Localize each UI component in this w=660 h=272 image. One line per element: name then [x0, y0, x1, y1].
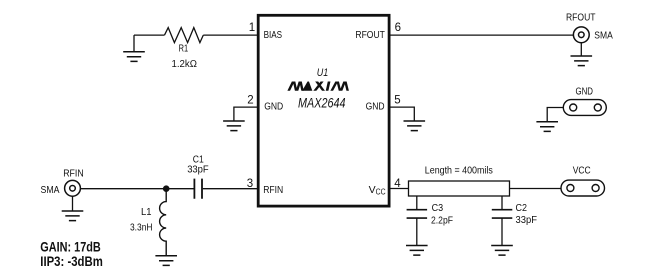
capacitor C3: [407, 210, 428, 218]
ground (RFIN SMA): [62, 211, 84, 221]
ground (C3): [406, 246, 428, 256]
wire (pin 4 to microstrip): [390, 188, 409, 190]
svg-text:SMA: SMA: [41, 184, 60, 196]
wire (SMA to ground): [72, 196, 74, 211]
svg-text:IIP3: -3dBm: IIP3: -3dBm: [40, 254, 103, 269]
MAXIM logo: [288, 80, 348, 93]
wire (microstrip to VCC header): [510, 188, 562, 190]
svg-text:GND: GND: [366, 100, 385, 112]
svg-text:RFIN: RFIN: [263, 184, 283, 196]
svg-text:R1: R1: [179, 43, 189, 55]
connector VCC header: [561, 180, 605, 196]
wire (R1 to pin 1): [203, 34, 257, 36]
wire (microstrip to C2): [501, 196, 503, 210]
svg-text:1: 1: [249, 22, 255, 34]
wire (pin 2 to ground): [234, 107, 257, 121]
wire (SMA to ground): [580, 43, 582, 56]
label VCC (pin 4): [369, 184, 386, 197]
svg-text:V: V: [369, 184, 376, 196]
connector RFIN SMA: [65, 180, 81, 196]
svg-text:SMA: SMA: [594, 30, 613, 42]
ground (RFOUT SMA): [571, 56, 593, 66]
svg-text:33pF: 33pF: [187, 164, 209, 176]
resistor R1: [165, 28, 204, 43]
wire (C1 to pin 3): [203, 188, 257, 190]
svg-text:5: 5: [394, 95, 400, 107]
wire (microstrip to C3): [416, 196, 418, 210]
svg-text:C3: C3: [432, 202, 444, 214]
svg-text:RFIN: RFIN: [63, 168, 83, 180]
svg-text:3.3nH: 3.3nH: [130, 222, 153, 234]
svg-text:2: 2: [247, 95, 253, 107]
svg-text:GND: GND: [576, 86, 594, 98]
ground (L1): [155, 256, 177, 266]
svg-text:33pF: 33pF: [516, 214, 538, 226]
svg-text:1.2kΩ: 1.2kΩ: [172, 58, 198, 70]
svg-text:VCC: VCC: [573, 165, 591, 177]
capacitor C1: [194, 179, 202, 199]
ground (pin 5): [404, 121, 426, 131]
node (junction at L1): [163, 185, 170, 192]
ground (GND header): [536, 122, 558, 132]
wire (ground to R1): [134, 34, 165, 36]
svg-text:GAIN: 17dB: GAIN: 17dB: [40, 240, 101, 255]
svg-text:Length = 400mils: Length = 400mils: [425, 165, 493, 177]
ground (pin 2): [223, 121, 245, 131]
wire (pin 6 to RFOUT SMA): [390, 34, 574, 36]
wire (C2 to ground): [501, 218, 503, 245]
svg-text:C2: C2: [516, 202, 528, 214]
svg-text:L1: L1: [141, 206, 152, 218]
svg-text:U1: U1: [317, 67, 329, 79]
svg-text:CC: CC: [376, 188, 386, 197]
inductor L1: [160, 189, 167, 256]
svg-text:BIAS: BIAS: [264, 29, 283, 41]
ground (C2): [491, 246, 513, 256]
svg-text:2.2pF: 2.2pF: [431, 215, 453, 227]
connector GND header: [563, 100, 606, 116]
svg-text:6: 6: [395, 22, 401, 34]
op-amp U1 MAX2644 box: [258, 15, 389, 206]
svg-text:3: 3: [247, 178, 253, 190]
svg-text:MAX2644: MAX2644: [298, 95, 346, 111]
svg-text:GND: GND: [264, 100, 283, 112]
svg-text:RFOUT: RFOUT: [566, 11, 596, 23]
wire (C3 to ground): [416, 218, 418, 245]
wire (RFIN SMA to C1): [80, 188, 193, 190]
connector RFOUT SMA: [573, 27, 589, 43]
wire (GND header to ground): [547, 108, 563, 122]
microstrip transmission line: [409, 181, 510, 196]
svg-text:RFOUT: RFOUT: [355, 29, 385, 41]
capacitor C2: [492, 210, 513, 218]
wire (pin 5 to ground): [390, 107, 415, 121]
ground (top-left, R1 input): [123, 35, 145, 61]
